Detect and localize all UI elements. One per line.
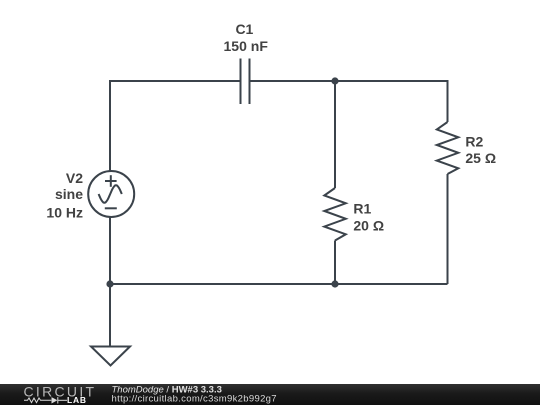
node junction top middle — [331, 77, 338, 84]
capacitor C1 — [241, 59, 250, 105]
wire bottom rail — [110, 283, 448, 285]
svg-text:C1: C1 — [235, 21, 253, 37]
wire top rail right (C1 right plate to R2 top, via node) — [251, 81, 448, 122]
resistor R2 — [437, 122, 459, 174]
wire top rail left (V2 top to C1 left plate) — [110, 81, 240, 171]
svg-text:R2: R2 — [465, 133, 483, 149]
svg-text:V2: V2 — [66, 170, 83, 186]
node junction bottom left — [106, 280, 113, 287]
wire R1 bottom lead — [334, 241, 336, 285]
wire V2 bottom lead — [109, 217, 111, 284]
wire ground lead — [109, 284, 111, 347]
node junction bottom middle — [331, 280, 338, 287]
wire R2 bottom lead — [447, 174, 449, 284]
svg-text:sine: sine — [55, 186, 83, 202]
svg-text:20 Ω: 20 Ω — [353, 218, 384, 234]
footer bar — [0, 384, 540, 405]
svg-text:http://circuitlab.com/c3sm9k2b: http://circuitlab.com/c3sm9k2b992g7 — [112, 394, 277, 405]
svg-text:25 Ω: 25 Ω — [465, 150, 496, 166]
logo schematic line with resistor and diode — [24, 397, 67, 403]
resistor R1 — [324, 188, 346, 241]
wire middle branch (node to R1 top) — [334, 81, 336, 188]
svg-text:10 Hz: 10 Hz — [46, 204, 83, 220]
svg-text:150 nF: 150 nF — [224, 38, 269, 54]
svg-text:R1: R1 — [353, 200, 371, 216]
svg-text:LAB: LAB — [67, 395, 87, 405]
ground — [91, 347, 130, 366]
voltage source V2 — [88, 171, 134, 217]
